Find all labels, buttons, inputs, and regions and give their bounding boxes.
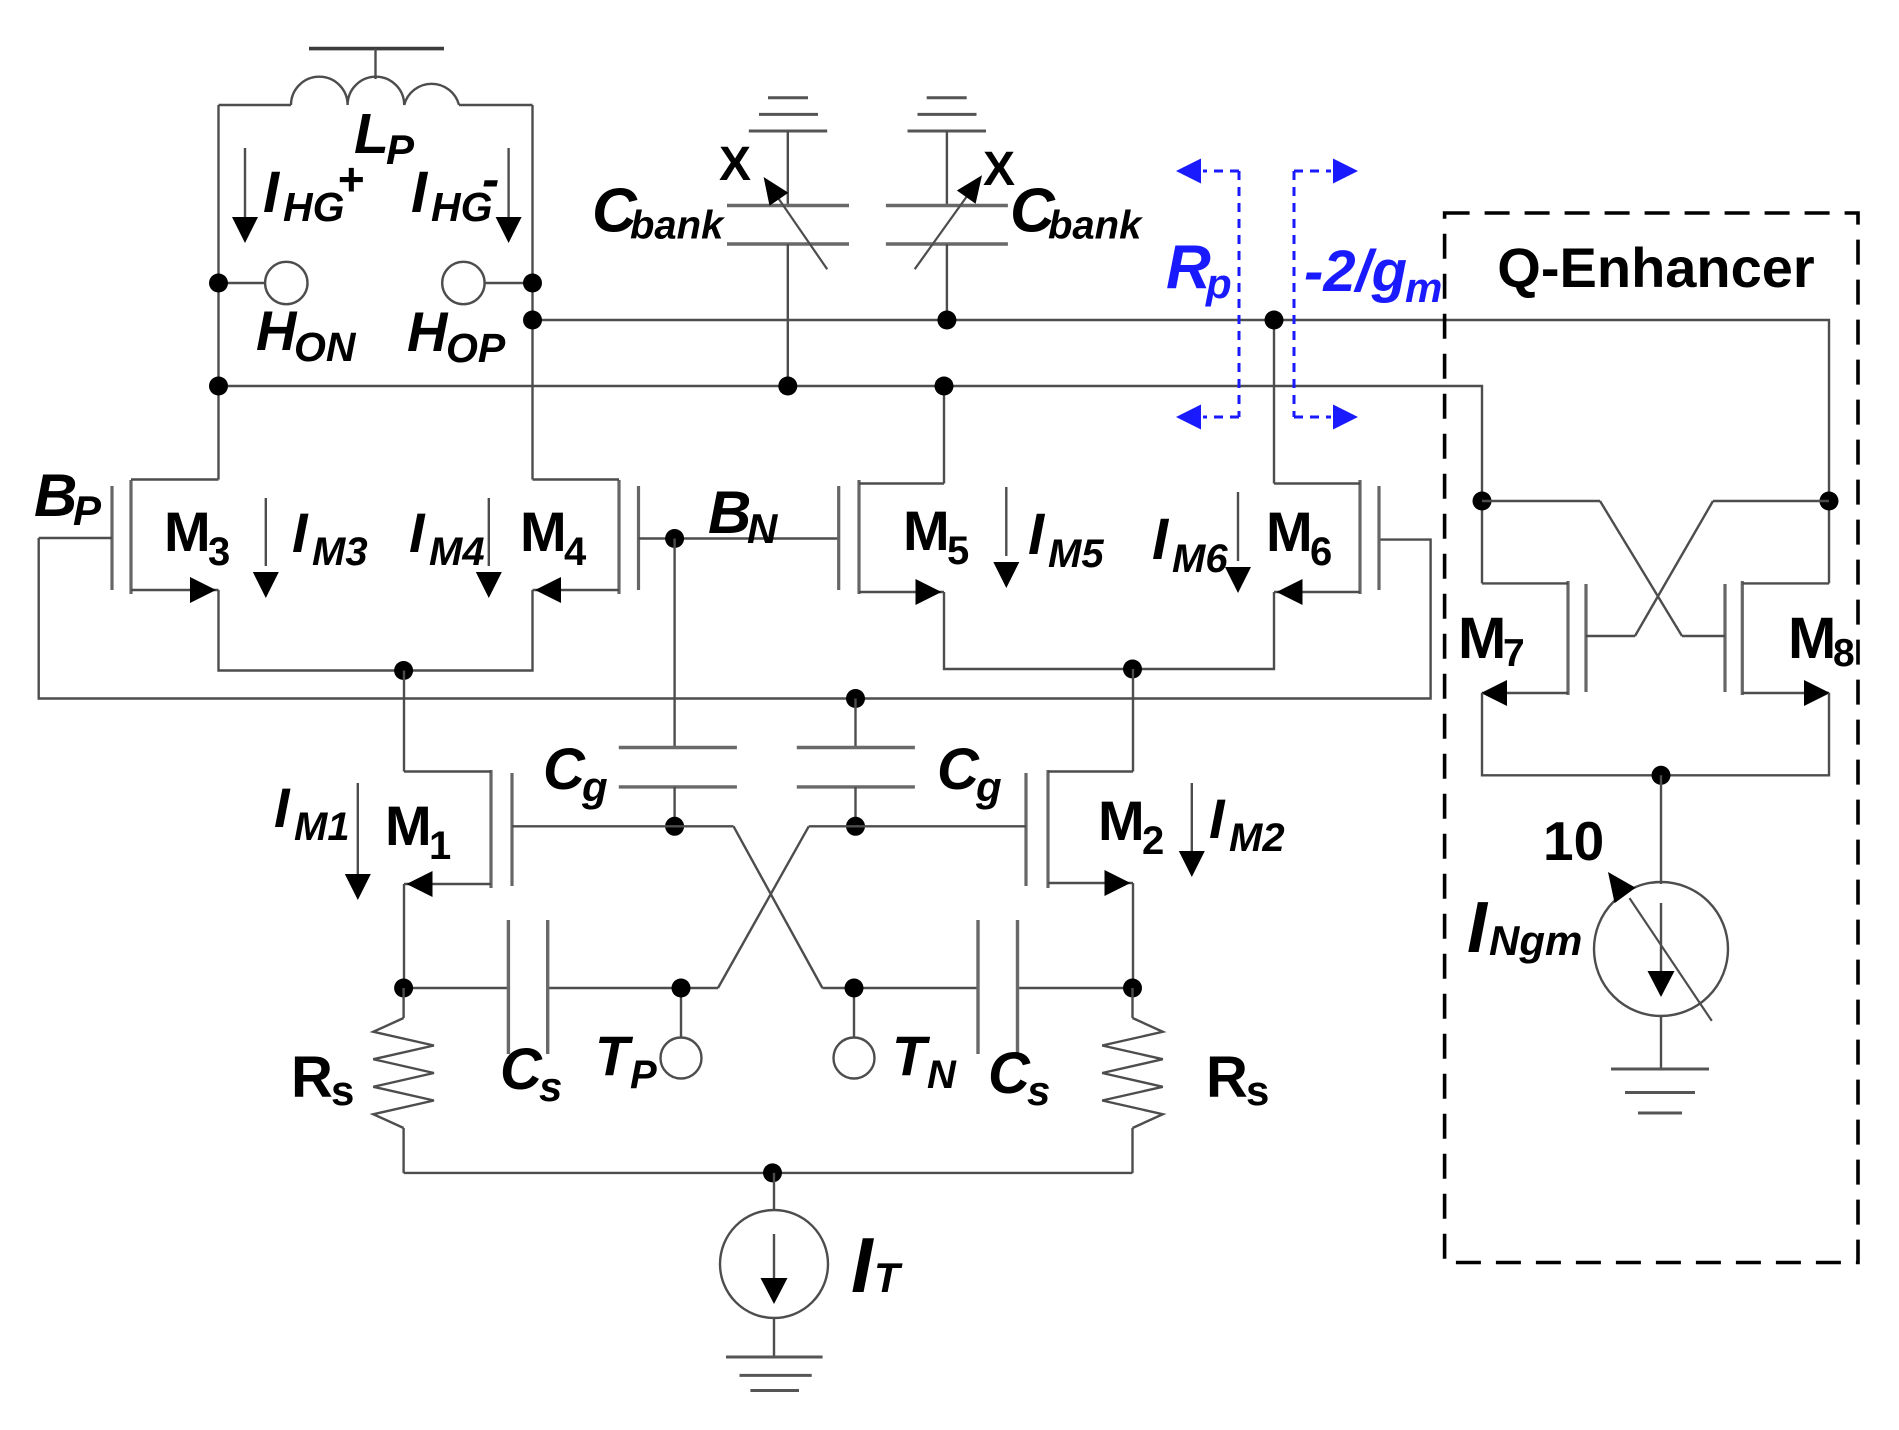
Q-enhancer dashed box bbox=[1445, 213, 1858, 1263]
label HOP bbox=[407, 300, 506, 371]
svg-text:P: P bbox=[73, 487, 102, 534]
resistor Rs right bbox=[1102, 988, 1163, 1173]
svg-text:OP: OP bbox=[446, 325, 506, 371]
varactor arrow Cbank right bbox=[915, 175, 982, 269]
node HON rail bbox=[209, 274, 228, 293]
label M1 bbox=[385, 794, 451, 868]
transistor M2 bbox=[1026, 669, 1133, 988]
wire BN to Cg left bbox=[673, 539, 675, 748]
wire diag to Cs right bbox=[822, 987, 978, 989]
node Cg right bus bbox=[846, 689, 865, 708]
node M8 drain bbox=[1820, 492, 1839, 511]
svg-text:s: s bbox=[331, 1067, 354, 1114]
node HOP rail bbox=[523, 274, 542, 293]
svg-text:+: + bbox=[337, 153, 364, 205]
label Q-Enhancer bbox=[1497, 236, 1814, 299]
wire Cs right to M2 source bbox=[1018, 987, 1133, 989]
current source INgm bbox=[1594, 872, 1728, 1021]
label M8 bbox=[1788, 606, 1855, 675]
label M5 bbox=[903, 499, 969, 573]
wire Cbank right to upper bus bbox=[946, 244, 948, 320]
node Cbank left bus bbox=[778, 377, 797, 396]
wire Cs left to diag bbox=[548, 987, 718, 989]
label Rs left bbox=[291, 1045, 354, 1114]
svg-text:s: s bbox=[1027, 1067, 1050, 1114]
capacitor Cbank right bbox=[886, 206, 1008, 245]
svg-text:I: I bbox=[409, 501, 426, 564]
label HON bbox=[256, 299, 357, 370]
svg-text:C: C bbox=[937, 737, 980, 802]
svg-text:M: M bbox=[903, 499, 950, 562]
svg-text:M: M bbox=[1266, 500, 1313, 563]
svg-text:T: T bbox=[892, 1024, 931, 1087]
svg-text:I: I bbox=[1028, 502, 1046, 567]
svg-text:T: T bbox=[595, 1024, 634, 1087]
current arrow IHG+ bbox=[232, 148, 258, 243]
label Rs right bbox=[1206, 1045, 1269, 1114]
wire Cbank left to lower bus bbox=[787, 244, 789, 386]
svg-text:M3: M3 bbox=[312, 530, 368, 574]
svg-text:s: s bbox=[539, 1063, 562, 1110]
wire tail rail bbox=[404, 1172, 1133, 1174]
svg-text:X: X bbox=[719, 138, 751, 191]
label IM3 bbox=[292, 501, 368, 574]
node M7 M8 common bbox=[1652, 766, 1671, 785]
node Cg left gate bbox=[665, 817, 684, 836]
svg-text:M: M bbox=[1098, 789, 1145, 852]
current arrow IM4 bbox=[476, 498, 502, 598]
label x right bbox=[983, 143, 1015, 196]
svg-text:1: 1 bbox=[429, 824, 451, 868]
svg-text:C: C bbox=[543, 737, 586, 802]
label M6 bbox=[1266, 500, 1332, 574]
svg-text:M1: M1 bbox=[294, 805, 350, 849]
capacitor Cbank left bbox=[727, 206, 849, 245]
node Cbank right bus bbox=[937, 311, 956, 330]
wire INgm to ground bbox=[1660, 1016, 1662, 1069]
current source IT bbox=[720, 1210, 828, 1318]
wire right rail bbox=[531, 105, 533, 480]
wire BP to M3 gate bbox=[39, 537, 112, 539]
svg-text:2: 2 bbox=[1142, 819, 1164, 863]
annotation Rp bracket bbox=[1176, 159, 1239, 430]
label IHG+ bbox=[263, 153, 364, 230]
transistor M4 bbox=[404, 480, 639, 671]
label INgm bbox=[1467, 888, 1582, 968]
node M1 source bbox=[394, 979, 413, 998]
wire common to INgm bbox=[1660, 775, 1662, 884]
transistor M6 bbox=[1133, 320, 1380, 669]
svg-text:H: H bbox=[407, 300, 449, 363]
svg-text:s: s bbox=[1246, 1067, 1269, 1114]
svg-text:I: I bbox=[851, 1221, 874, 1309]
wire lower bus bbox=[219, 386, 1483, 501]
node M7 drain bbox=[1473, 492, 1492, 511]
ground IT bbox=[726, 1357, 823, 1391]
node M5 M6 common bbox=[1123, 660, 1142, 679]
svg-text:I: I bbox=[292, 501, 309, 564]
svg-text:C: C bbox=[500, 1037, 543, 1102]
wire M8 cross couple bbox=[1586, 501, 1829, 636]
label IM4 bbox=[409, 501, 485, 574]
label M2 bbox=[1098, 789, 1164, 863]
label IHG- bbox=[411, 151, 499, 230]
label LP bbox=[354, 102, 415, 173]
label IM1 bbox=[274, 776, 350, 849]
wire cross couple diag 1 bbox=[734, 826, 823, 988]
svg-text:M: M bbox=[1788, 606, 1836, 671]
wire M1 source to Cs left bbox=[404, 987, 509, 989]
ground top right bbox=[908, 98, 987, 131]
svg-text:C: C bbox=[988, 1041, 1031, 1106]
svg-text:3: 3 bbox=[208, 530, 230, 574]
port HOP bbox=[442, 262, 532, 304]
wire Cg left to gate node bbox=[673, 787, 675, 826]
label M4 bbox=[520, 500, 587, 574]
svg-text:8: 8 bbox=[1833, 632, 1855, 675]
label BP bbox=[34, 462, 102, 534]
svg-text:Ngm: Ngm bbox=[1489, 917, 1582, 964]
node M5 drain bus bbox=[935, 377, 954, 396]
ground INgm bbox=[1611, 1069, 1709, 1113]
power supply bar bbox=[309, 49, 444, 79]
svg-text:-: - bbox=[482, 151, 499, 209]
svg-text:R: R bbox=[291, 1045, 333, 1110]
label M3 bbox=[164, 500, 230, 574]
svg-text:M2: M2 bbox=[1229, 816, 1285, 860]
inductor LP bbox=[291, 77, 459, 105]
wire bus to Cg right bbox=[854, 699, 856, 748]
transistor M3 bbox=[112, 480, 404, 671]
label Cs right bbox=[988, 1041, 1050, 1114]
label Cs left bbox=[500, 1037, 562, 1110]
ground top left bbox=[749, 98, 827, 131]
svg-text:M: M bbox=[164, 500, 211, 563]
annotation -2/gm bracket bbox=[1294, 159, 1358, 430]
capacitor Cs left bbox=[508, 920, 547, 1054]
label -2/gm bbox=[1304, 239, 1442, 311]
svg-text:H: H bbox=[256, 299, 298, 362]
label BN bbox=[708, 479, 779, 552]
node BN bbox=[665, 529, 684, 548]
svg-text:N: N bbox=[927, 1053, 957, 1097]
port TN bbox=[834, 988, 875, 1079]
wire inductor right to rail bbox=[459, 104, 533, 106]
svg-text:bank: bank bbox=[1048, 204, 1143, 248]
svg-text:M4: M4 bbox=[429, 530, 485, 574]
wire M7 cross couple bbox=[1482, 501, 1725, 636]
node M3 M4 common bbox=[394, 661, 413, 680]
label 10 bbox=[1543, 810, 1604, 872]
wire M1 gate line bbox=[512, 825, 734, 827]
wire M4 gate to M5 gate bbox=[639, 537, 839, 539]
svg-text:bank: bank bbox=[630, 204, 725, 248]
label M7 bbox=[1458, 606, 1525, 675]
label Cg right bbox=[937, 737, 1002, 810]
wire tail to IT bbox=[773, 1173, 775, 1210]
svg-text:7: 7 bbox=[1503, 632, 1525, 675]
svg-text:p: p bbox=[1205, 260, 1232, 307]
svg-text:B: B bbox=[34, 462, 77, 529]
svg-text:P: P bbox=[630, 1053, 657, 1097]
node M2 source bbox=[1123, 979, 1142, 998]
svg-text:M: M bbox=[385, 794, 432, 857]
svg-text:N: N bbox=[747, 505, 779, 552]
label IT bbox=[851, 1221, 903, 1309]
node M6 drain bus bbox=[1265, 311, 1284, 330]
label IM2 bbox=[1209, 787, 1285, 860]
svg-text:M: M bbox=[520, 500, 567, 563]
resistor Rs left bbox=[373, 988, 434, 1173]
svg-text:R: R bbox=[1206, 1045, 1248, 1110]
wire M2 gate line bbox=[809, 825, 1026, 827]
label Cg left bbox=[543, 737, 608, 810]
wire cross couple diag 2 bbox=[718, 826, 809, 988]
svg-text:I: I bbox=[1467, 888, 1489, 968]
wire BP bus to M6 gate bbox=[39, 538, 1431, 699]
node upper bus start bbox=[523, 311, 542, 330]
svg-text:M5: M5 bbox=[1048, 532, 1104, 576]
svg-text:g: g bbox=[581, 763, 608, 810]
svg-text:4: 4 bbox=[564, 530, 587, 574]
label Cbank right bbox=[1010, 177, 1143, 248]
svg-text:Q-Enhancer: Q-Enhancer bbox=[1497, 236, 1814, 299]
wire ground to Cbank right bbox=[946, 131, 948, 206]
port TP bbox=[661, 988, 702, 1079]
wire left rail bbox=[217, 105, 219, 480]
varactor arrow Cbank left bbox=[764, 177, 828, 269]
wire IT to ground bbox=[773, 1318, 775, 1357]
capacitor Cg left bbox=[619, 748, 737, 787]
svg-text:I: I bbox=[263, 160, 281, 225]
svg-text:5: 5 bbox=[947, 529, 969, 573]
svg-text:B: B bbox=[708, 479, 751, 546]
capacitor Cg right bbox=[797, 748, 915, 787]
label IM6 bbox=[1152, 507, 1228, 581]
svg-text:M6: M6 bbox=[1172, 537, 1228, 581]
capacitor Cs right bbox=[978, 920, 1018, 1054]
wire inductor left to rail bbox=[219, 104, 292, 106]
label IM5 bbox=[1028, 502, 1104, 576]
svg-text:6: 6 bbox=[1310, 530, 1332, 574]
wire ground to Cbank left bbox=[787, 131, 789, 206]
node Cg right gate bbox=[846, 817, 865, 836]
label x left bbox=[719, 138, 751, 191]
svg-text:I: I bbox=[411, 160, 429, 225]
transistor M7 bbox=[1481, 501, 1661, 775]
transistor M8 bbox=[1661, 501, 1830, 775]
node TN bbox=[845, 979, 864, 998]
svg-text:I: I bbox=[1152, 507, 1170, 572]
current arrow IM2 bbox=[1179, 783, 1205, 877]
svg-text:g: g bbox=[975, 763, 1002, 810]
svg-text:-2/g: -2/g bbox=[1304, 239, 1407, 304]
svg-text:T: T bbox=[874, 1254, 903, 1301]
current arrow IM5 bbox=[993, 487, 1019, 588]
label TP bbox=[595, 1024, 657, 1097]
wire upper bus bbox=[533, 320, 1830, 501]
transistor M5 bbox=[839, 386, 1133, 669]
current arrow IM6 bbox=[1225, 492, 1251, 593]
wire Cg right to gate node bbox=[854, 787, 856, 826]
label Rp bbox=[1166, 233, 1232, 307]
transistor M1 bbox=[404, 671, 512, 989]
svg-text:R: R bbox=[1166, 233, 1211, 302]
node tail bbox=[763, 1163, 782, 1182]
label TN bbox=[892, 1024, 957, 1097]
current arrow IHG- bbox=[496, 148, 522, 243]
svg-text:M: M bbox=[1458, 606, 1506, 671]
node lower bus start bbox=[209, 377, 228, 396]
label Cbank left bbox=[592, 177, 725, 248]
current arrow IM3 bbox=[253, 498, 279, 598]
svg-text:10: 10 bbox=[1543, 810, 1604, 872]
svg-text:m: m bbox=[1405, 264, 1442, 311]
svg-text:I: I bbox=[1209, 787, 1226, 850]
svg-text:I: I bbox=[274, 776, 291, 839]
port HON bbox=[219, 262, 308, 304]
svg-text:ON: ON bbox=[294, 324, 357, 370]
current arrow IM1 bbox=[345, 783, 371, 900]
svg-text:HG: HG bbox=[283, 184, 345, 230]
node TP bbox=[672, 979, 691, 998]
